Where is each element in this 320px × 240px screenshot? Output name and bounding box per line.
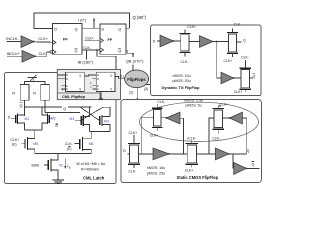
svg-text:pMOS: 5u: pMOS: 5u (186, 104, 202, 108)
wire buf2 to TG2 (213, 41, 229, 43)
buffer B2 (215, 148, 229, 160)
svg-text:Q: Q (110, 88, 112, 91)
FlipFlops symbol (125, 70, 149, 88)
buffer U1 (160, 35, 174, 47)
svg-text:CLK-: CLK- (65, 142, 73, 146)
wire Qb rail (25, 106, 62, 108)
port bottom (99, 92, 103, 99)
svg-text:D: D (97, 78, 99, 81)
svg-text:CLK+: CLK+ (129, 131, 138, 135)
wire B3 out Qb (246, 167, 259, 169)
svg-text:CLK-: CLK- (157, 100, 165, 104)
svg-text:Q: Q (79, 75, 81, 78)
transistor M3 (70, 107, 90, 132)
svg-text:CML Latch: CML Latch (83, 176, 105, 181)
wire TGA to buf B1 (139, 153, 154, 155)
wire FF2.Qb to QB label (126, 50, 133, 57)
svg-text:CLK-: CLK- (181, 60, 189, 64)
wire buffer B to FF1 bubble (35, 52, 50, 56)
latch cell 1 (62, 72, 85, 91)
svg-text:D: D (97, 74, 99, 77)
wire cross couple X (80, 107, 110, 121)
wire TGC feedback drop (141, 118, 153, 154)
tgate TG2 (224, 23, 249, 64)
svg-text:M2: M2 (51, 117, 56, 121)
wire R2 to Q rail (44, 100, 46, 112)
wire cell1 inputs (57, 75, 61, 79)
wire vdd rail (25, 81, 45, 84)
inverter tri1 left (166, 112, 180, 124)
svg-text:Dynamic TG FlipFlop: Dynamic TG FlipFlop (162, 86, 201, 90)
svg-text:Q: Q (75, 49, 78, 53)
wire pin3 (147, 84, 151, 86)
svg-text:CLK-: CLK- (234, 23, 242, 27)
svg-text:(2): (2) (129, 90, 133, 94)
wire FF1.Q to FF2.D (82, 27, 100, 29)
svg-text:CLK+: CLK+ (220, 102, 229, 106)
wire TG3 out Qb (250, 77, 254, 79)
svg-text:M4: M4 (104, 119, 109, 123)
svg-text:(1): (1) (120, 75, 124, 79)
svg-text:pMOS: 25u: pMOS: 25u (147, 172, 165, 176)
svg-text:INCLK-: INCLK- (6, 37, 19, 41)
svg-text:(3): (3) (144, 87, 148, 91)
wire pin2 (136, 88, 138, 100)
wire Q rail (45, 112, 80, 114)
wire IB drop (86, 50, 88, 59)
wire branch to B3 (232, 154, 234, 169)
svg-text:nMOS: 10u: nMOS: 10u (173, 74, 191, 78)
wire QB to ellipse top (132, 64, 134, 71)
node Db latch label (55, 124, 58, 128)
buffer A (21, 36, 34, 48)
svg-text:D: D (8, 116, 11, 120)
node CLK+ (E) label (11, 138, 20, 146)
flip-flop FF2 (100, 24, 126, 54)
svg-text:QB (270°): QB (270°) (126, 59, 144, 64)
svg-text:Q: Q (118, 49, 121, 53)
buffer B3 (234, 162, 247, 174)
wire FF1.Qb to IB (82, 49, 100, 51)
svg-text:Q: Q (253, 75, 256, 79)
svg-text:FlipFlops: FlipFlops (127, 77, 146, 82)
latch cell 2 (92, 72, 115, 91)
transistor M2 (42, 107, 56, 130)
svg-text:CML Flipflop: CML Flipflop (62, 95, 86, 99)
svg-text:Q (90°): Q (90°) (133, 15, 147, 20)
transistor M7 tail (44, 158, 64, 180)
wire INCLK+ (7, 55, 22, 57)
svg-text:CLK-: CLK- (241, 56, 249, 60)
svg-text:nMOS: 10u: nMOS: 10u (147, 166, 165, 170)
svg-text:R: R (12, 91, 15, 95)
svg-text:CLK+: CLK+ (187, 25, 196, 29)
buffer B1 (153, 148, 169, 160)
svg-text:INCLK+: INCLK+ (7, 52, 21, 56)
wire tri1 base drop (180, 118, 184, 154)
wire buffer A to FF1 (34, 41, 53, 43)
svg-text:Static CMOS FlipFlop: Static CMOS FlipFlop (177, 175, 219, 180)
svg-text:VC: VC (59, 164, 64, 168)
svg-text:FF: FF (63, 37, 68, 41)
Static CMOS FlipFlop box (121, 100, 261, 183)
ellipse highlight (140, 102, 259, 141)
svg-text:R=400ohm: R=400ohm (81, 168, 99, 172)
tgate TG1 (179, 25, 196, 64)
svg-text:CLK+: CLK+ (85, 36, 94, 40)
svg-text:D: D (123, 149, 126, 153)
transistor M5 (22, 137, 39, 153)
svg-text:CLK-: CLK- (129, 169, 137, 173)
CML Latch box (5, 73, 117, 184)
node I(0) arrow (93, 18, 95, 29)
node Qb dyn label (253, 74, 256, 79)
svg-text:D: D (54, 27, 57, 31)
svg-text:Q: Q (20, 104, 23, 108)
node CLK- (Eb) label (65, 142, 73, 151)
wire Qb rail 2 (68, 106, 92, 108)
inverter tri2 left (230, 112, 243, 124)
svg-text:(E): (E) (67, 147, 72, 151)
resistor R1 (20, 85, 29, 101)
svg-text:IB (180°): IB (180°) (78, 60, 94, 65)
svg-text:(E): (E) (12, 143, 17, 147)
node Qb latch label (19, 103, 22, 108)
junction dot (96, 49, 98, 51)
buffer B (22, 51, 35, 63)
wire leader to CML FlipFlop box (97, 50, 116, 70)
tgate TGA (128, 131, 140, 173)
tgate TGC (150, 100, 165, 137)
svg-text:pMOS: 20u: pMOS: 20u (173, 79, 191, 83)
wire INCLK- (7, 41, 22, 43)
tgate TGB (185, 136, 198, 172)
transistor M4 (100, 115, 110, 132)
wire cell2.Q out (115, 77, 125, 79)
svg-text:BIAS: BIAS (32, 164, 40, 168)
wire CLK+ stub FF2 (85, 39, 101, 41)
wire feedback top (34, 13, 130, 29)
wire cell1.Q to cell2.D (84, 75, 92, 76)
wire TGC to tri1 (161, 117, 166, 119)
svg-text:CLK+: CLK+ (224, 59, 233, 63)
wire tail rail (35, 152, 92, 154)
svg-text:D: D (66, 78, 68, 81)
svg-text:D: D (66, 74, 68, 77)
svg-text:CLK-: CLK- (83, 46, 91, 50)
svg-text:W of M1~M6 = 8u,: W of M1~M6 = 8u, (76, 162, 106, 166)
svg-text:Q: Q (247, 149, 250, 153)
svg-text:Q: Q (79, 88, 81, 91)
svg-text:CLK+: CLK+ (234, 90, 243, 94)
ground (53, 180, 65, 184)
svg-text:Q: Q (118, 28, 121, 32)
svg-text:Q: Q (243, 38, 246, 42)
wire B2 out to Q (229, 153, 246, 155)
flip-flop FF1 (50, 24, 82, 55)
svg-text:CLK+: CLK+ (11, 138, 20, 142)
svg-text:M1: M1 (25, 117, 30, 121)
wire buf1 to TG1 (174, 40, 181, 42)
svg-text:D: D (153, 40, 156, 44)
svg-text:R: R (33, 91, 36, 95)
svg-text:Q: Q (110, 75, 112, 78)
current source IB (64, 159, 71, 170)
transistor M1 (11, 114, 29, 131)
svg-text:D: D (102, 28, 105, 32)
resistor R2 (41, 85, 50, 101)
transistor M6 (74, 137, 93, 153)
svg-text:CLK+: CLK+ (150, 133, 159, 137)
wire B1 to TGB (169, 153, 187, 155)
svg-text:CLK+: CLK+ (185, 168, 194, 172)
svg-text:I (0°): I (0°) (78, 19, 87, 23)
buffer U2 (200, 36, 214, 48)
wire R1 to M1 drain (24, 100, 26, 116)
svg-text:CLK+: CLK+ (39, 37, 49, 41)
wire buf3 to TG3 (234, 77, 242, 79)
svg-text:Q: Q (63, 107, 66, 111)
wire M3 M4 common source (90, 131, 111, 133)
wire D to TGA (128, 153, 130, 155)
tgate TGD (212, 102, 228, 140)
wire TGD to tri2 (223, 117, 230, 119)
wire TG1 to buf2 (189, 41, 200, 43)
wire tri2 base drop (242, 118, 246, 154)
wire TGB to buf B2 (196, 153, 215, 155)
wire D to buf1 (157, 40, 160, 42)
svg-text:Q: Q (75, 27, 78, 31)
wire branch down to buf3 (217, 42, 221, 79)
wire M1 M2 common source (25, 129, 42, 131)
power vdd symbol (28, 75, 38, 82)
svg-text:(CLK-: (CLK- (187, 136, 196, 140)
CML FlipFlop box (57, 70, 120, 100)
svg-text:nMOS: 2.5u: nMOS: 2.5u (184, 98, 203, 102)
svg-text:CLK-: CLK- (212, 137, 220, 141)
wire FF2.Q out (126, 27, 130, 29)
node Qb static label (252, 162, 255, 167)
svg-text:M3: M3 (70, 117, 75, 121)
tgate TG3 (234, 60, 251, 94)
svg-text:M5: M5 (33, 142, 38, 146)
svg-text:Q: Q (252, 162, 255, 166)
wire TG2 out Q (237, 41, 242, 43)
svg-text:FF: FF (108, 38, 113, 42)
buffer U3 (221, 72, 234, 84)
Dynamic TG FlipFlop box (151, 25, 261, 96)
wire TGD feedback drop (209, 118, 214, 154)
svg-text:M6: M6 (89, 142, 94, 146)
